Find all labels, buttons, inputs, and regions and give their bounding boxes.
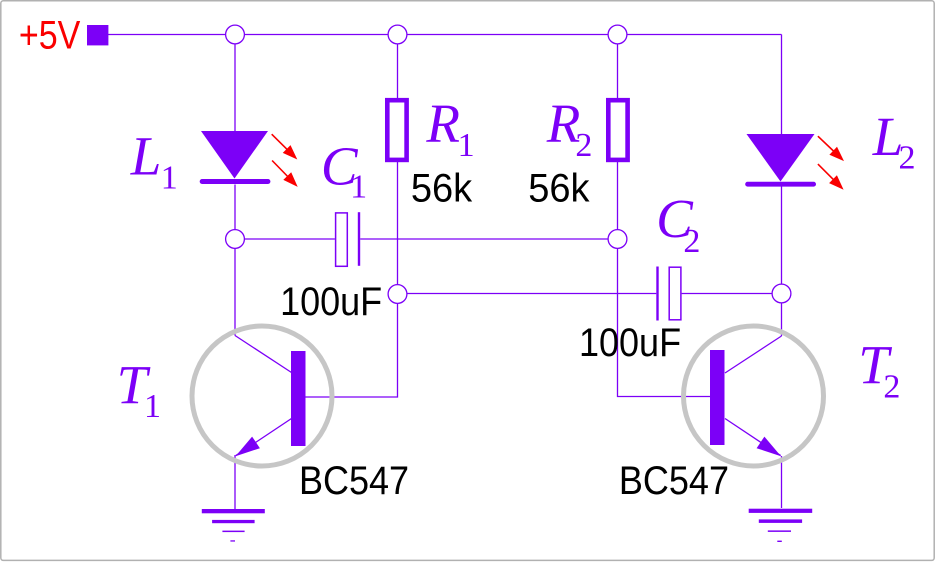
- wire: T2 emitter to ground: [781, 456, 783, 508]
- LED L1 light arrow 2: [272, 161, 288, 178]
- wire: rail drop to LED L2: [781, 35, 783, 135]
- transistor T1 body circle: [192, 326, 332, 466]
- capacitor C2 plate (line): [656, 267, 658, 321]
- transistor T2 emitter arrow: [757, 437, 781, 457]
- transistor T2 collector line: [725, 336, 782, 373]
- svg-text:1: 1: [161, 159, 178, 196]
- +5V terminal square: [87, 25, 108, 45]
- LED L2 light arrow 1: [818, 136, 834, 151]
- node on rail above L1: [226, 25, 245, 44]
- ground (T1 emitter): [202, 509, 265, 542]
- node C: R1 bottom / C2 left: [388, 285, 407, 304]
- transistor T1 collector line: [235, 336, 292, 373]
- LED L2 anode triangle: [747, 134, 815, 182]
- capacitor C1 plate (box): [336, 213, 348, 266]
- LED L2 cathode bar: [745, 182, 816, 187]
- svg-text:2: 2: [575, 127, 592, 164]
- LED L1 anode triangle: [201, 131, 268, 179]
- svg-text:2: 2: [899, 139, 916, 176]
- LED L1 light arrow 1: [272, 134, 288, 150]
- node on rail above R2: [608, 25, 627, 44]
- wire: rail drop to R2: [617, 35, 619, 100]
- svg-text:1: 1: [350, 169, 367, 206]
- LED L2 light arrow 2: [818, 164, 834, 180]
- wire: C1 right plate to node B under R2: [360, 238, 617, 240]
- svg-text:56k: 56k: [411, 167, 473, 211]
- transistor T1 emitter line: [236, 419, 292, 456]
- svg-text:R: R: [425, 93, 460, 154]
- wire: rail drop to R1: [397, 35, 399, 100]
- wire: LED L1 cathode down to node and T1 collector: [234, 185, 236, 336]
- ground (T2 emitter): [749, 509, 813, 542]
- svg-text:2: 2: [883, 369, 900, 406]
- wire: node C to C2 left plate: [398, 293, 657, 295]
- transistor T2 emitter line: [725, 419, 781, 456]
- node D: L2 cathode / C2 right: [772, 284, 791, 303]
- transistor T1 emitter arrow: [236, 437, 260, 457]
- node A: L1 cathode / C1: [226, 230, 245, 249]
- svg-text:L: L: [130, 125, 162, 186]
- transistor T2 body circle: [684, 326, 824, 466]
- svg-text:56k: 56k: [528, 167, 590, 211]
- wire: R1 bottom down to node C: [397, 161, 399, 294]
- resistor R2: [608, 100, 627, 160]
- resistor R1: [387, 100, 406, 160]
- svg-text:100uF: 100uF: [280, 280, 382, 324]
- capacitor C2 plate (box): [669, 267, 681, 320]
- LED L1 cathode bar: [200, 179, 271, 184]
- transistor T2 base bar: [710, 350, 725, 445]
- wire: node B down and right to T2 base: [618, 238, 711, 397]
- wire: node C down and left to T1 base: [305, 294, 398, 397]
- svg-text:1: 1: [458, 127, 475, 164]
- wire: rail drop to LED L1: [234, 35, 236, 132]
- svg-text:1: 1: [144, 388, 161, 425]
- wire: LED L2 cathode down through node D to T2 collector: [781, 186, 783, 336]
- svg-text:100uF: 100uF: [579, 321, 681, 365]
- svg-text:+5V: +5V: [19, 12, 81, 57]
- wire: C2 right plate to node D: [682, 293, 782, 295]
- wire: +5V rail: [108, 34, 782, 36]
- node on rail above R1: [388, 25, 407, 44]
- wire: R2 bottom down to node B: [617, 161, 619, 238]
- node B: R2 bottom / C1 right: [608, 230, 627, 249]
- transistor T1 base bar: [291, 351, 306, 446]
- capacitor C1 plate (line): [358, 212, 360, 266]
- svg-text:2: 2: [683, 223, 700, 260]
- wire: node A to C1 left plate: [235, 238, 335, 240]
- svg-text:BC547: BC547: [619, 459, 729, 503]
- wire: T1 emitter to ground: [234, 455, 236, 509]
- svg-text:BC547: BC547: [299, 459, 409, 503]
